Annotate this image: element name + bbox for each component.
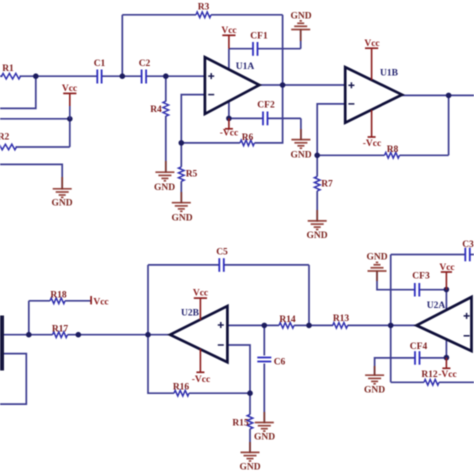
node U2A Vcc pin junction [444, 287, 450, 293]
wire Vcc junction down to R2 [69, 119, 71, 147]
svg-text:U1B: U1B [380, 69, 399, 79]
wire R16 to minus loop [189, 392, 250, 394]
svg-text:Vcc: Vcc [364, 39, 379, 49]
wire R18 to Vcc bar [65, 300, 91, 302]
op-amp input polarity marks [208, 73, 469, 345]
svg-text:Vcc: Vcc [93, 298, 108, 308]
svg-text:R15: R15 [232, 419, 249, 429]
ground stub input rail [61, 177, 63, 190]
ground stub CF3 (up) [376, 271, 378, 282]
node U2A -Vcc pin junction [444, 355, 450, 361]
wire C5 line left [148, 264, 219, 266]
op-amp U2A [417, 297, 472, 351]
U2A plus pin mark [464, 315, 470, 317]
wire U2B plus input [227, 324, 279, 326]
ground stub CF2 [300, 129, 302, 140]
resistor R18 [50, 298, 65, 304]
wire CF4 GND stub [375, 358, 415, 375]
wire U1B output [402, 94, 474, 96]
wire R18 line [29, 300, 50, 302]
ground stub R4 [165, 161, 167, 173]
svg-text:CF2: CF2 [257, 101, 275, 111]
svg-text:GND: GND [254, 433, 275, 443]
wire CF3 GND stub [377, 271, 415, 290]
wire CF1 rail Vcc to cap [229, 48, 253, 50]
wire R6 to feedback vertical [255, 85, 283, 143]
svg-text:-Vcc: -Vcc [220, 129, 238, 139]
U1B plus pin mark [348, 84, 354, 86]
wire U2B output vertical to R16 [148, 335, 174, 394]
wire U2A output bus vertical [390, 255, 392, 383]
wire C3 line [391, 254, 466, 256]
ground stub R7 [316, 210, 318, 222]
wire R17 to U2B output [68, 334, 171, 336]
wire U1B output vertical to R8 [448, 95, 450, 155]
node U1A minus feedback junction [179, 140, 185, 146]
wire R13 line [309, 324, 333, 326]
capacitor CF3 [414, 283, 416, 297]
wire U1A bottom pin [228, 101, 230, 119]
wire feedback vertical R3 to U1A output [282, 15, 284, 85]
node U1B minus feedback junction [314, 153, 320, 159]
wire R5 top [180, 143, 182, 167]
svg-text:R2: R2 [0, 133, 10, 143]
node U1B output junction [446, 93, 452, 99]
svg-text:R16: R16 [173, 383, 190, 393]
svg-text:GND: GND [154, 183, 175, 193]
wire C1 to C2 [102, 75, 142, 77]
power symbols [63, 35, 452, 372]
svg-text:R4: R4 [150, 105, 162, 115]
wires stage 1 [0, 15, 474, 221]
node U1A plus junction [163, 73, 169, 79]
U2B plus pin mark [218, 324, 224, 326]
wire U2A top pin [445, 290, 447, 311]
wire C6 vertical top [263, 325, 265, 355]
svg-text:GND: GND [364, 386, 385, 396]
capacitor C2 [141, 70, 143, 84]
node U1A -Vcc pin junction [226, 116, 232, 122]
node U2B output junction [145, 332, 151, 338]
wire CF2 cap to GND stub [268, 117, 301, 119]
resistor R4 [163, 101, 169, 116]
ground stub C6 [263, 412, 265, 423]
resistor R16 [174, 390, 189, 396]
svg-text:C2: C2 [139, 59, 151, 69]
wire U1A output to U1B plus input [259, 84, 345, 86]
wire C6 vertical bottom to GND [263, 364, 265, 423]
wire R7 top [316, 155, 318, 176]
wire R14 to C5 junction [294, 324, 309, 326]
wire R2 to Vcc junction [16, 146, 70, 148]
ground below R7 [308, 221, 327, 230]
ground symbol stubs (maroon near symbol) [62, 29, 377, 453]
capacitor CF4 [414, 351, 416, 365]
svg-text:GND: GND [366, 253, 387, 263]
wire R1 to C1 [20, 75, 98, 77]
svg-text:R8: R8 [387, 145, 399, 155]
power Vcc above U2A [441, 272, 452, 290]
node Vcc rail junction [67, 116, 73, 122]
resistor R14 [279, 323, 294, 329]
svg-text:R5: R5 [186, 170, 198, 180]
resistor R8 [385, 153, 400, 159]
capacitors [97, 42, 470, 365]
U1A minus pin mark [208, 94, 214, 96]
svg-text:Vcc: Vcc [193, 289, 208, 299]
power Vcc above U1B [365, 48, 378, 80]
capacitor CF1 [252, 42, 254, 56]
wire R18 branch vertical [28, 301, 30, 335]
wire Vcc rail left [0, 118, 70, 120]
power -Vcc below U1A [225, 118, 233, 128]
resistor R7 [314, 177, 320, 191]
ground below CF2 [291, 140, 310, 149]
op-amps [170, 57, 471, 362]
wire R1 lead left [0, 75, 3, 77]
svg-text:R7: R7 [321, 180, 333, 190]
wire R12 line [391, 381, 424, 383]
ground stub CF4 [374, 366, 376, 376]
svg-text:GND: GND [171, 214, 192, 224]
op-amp U1B [345, 67, 402, 123]
svg-text:-Vcc: -Vcc [363, 139, 381, 149]
power Vcc above U1A [222, 35, 235, 48]
U2A minus pin mark [464, 335, 470, 337]
wire R15 bottom to GND [249, 429, 251, 453]
U1B minus pin mark [348, 103, 354, 105]
resistor R1 [2, 73, 21, 79]
wire mic output to R17 [4, 334, 53, 336]
svg-text:Vcc: Vcc [439, 263, 454, 273]
wire R8 to output vertical [400, 154, 449, 156]
wire C5 right vertical [308, 265, 310, 326]
svg-text:U1A: U1A [236, 62, 255, 72]
wire R4 bottom to GND [165, 116, 167, 172]
wire CF3 cap to Vcc pin [419, 289, 446, 291]
svg-text:R17: R17 [52, 325, 69, 335]
ground above CF3 (inverted) [368, 262, 387, 271]
wire CF1 cap to GND stub [258, 48, 301, 50]
wire ground rail left [0, 164, 62, 188]
node U1A output junction [280, 82, 286, 88]
ground stub CF1 (up) [300, 29, 302, 41]
wire U2A bottom pin [445, 339, 447, 358]
ground stub R15 [249, 442, 251, 453]
resistor R15 [247, 415, 253, 429]
ground below input rail [53, 189, 72, 198]
capacitor CF2 [262, 112, 264, 126]
power Vcc above U2B [194, 298, 207, 320]
resistor R13 [333, 323, 348, 329]
wire CF2 rail -Vcc to cap [229, 117, 263, 119]
node R1 junction [33, 73, 39, 79]
wire C2 to U1A plus input [146, 75, 205, 77]
wire U2B minus input loop [227, 345, 250, 393]
svg-text:C1: C1 [94, 59, 106, 69]
svg-text:GND: GND [290, 151, 311, 161]
wire node A vertical below R1 junction [0, 76, 36, 108]
svg-text:R1: R1 [2, 64, 14, 74]
wire C1-C2 node up to R3 line [121, 15, 123, 76]
power Vcc above R2 rail [63, 93, 76, 118]
wire R15 top [249, 393, 251, 414]
ground symbols [53, 21, 387, 461]
resistor R17 [53, 332, 68, 338]
wire U1A plus junction down to R4 [165, 76, 167, 101]
power Vcc right of R18 [90, 296, 92, 304]
resistor R3 [196, 12, 211, 18]
ground below R5 [172, 203, 191, 212]
svg-text:U2A: U2A [427, 301, 446, 311]
wire C5 left vertical [147, 265, 149, 335]
wire CF4 cap to -Vcc pin [420, 357, 447, 359]
resistor R2 [0, 144, 17, 150]
svg-text:GND: GND [239, 463, 260, 473]
U1A plus pin mark [208, 75, 214, 77]
power -Vcc below U2B [196, 349, 204, 373]
resistor R6 [240, 140, 254, 146]
svg-text:C3: C3 [462, 240, 474, 250]
node U2A output junction [388, 323, 394, 329]
svg-text:CF4: CF4 [410, 342, 428, 352]
wire R5 bottom to GND [180, 181, 182, 202]
microphone element (cut at left edge) [0, 316, 4, 371]
svg-text:-Vcc: -Vcc [438, 370, 456, 380]
wire R3 line top [122, 14, 196, 16]
svg-text:C6: C6 [274, 358, 286, 368]
svg-text:U2B: U2B [181, 309, 200, 319]
capacitor C3 [464, 248, 466, 262]
wire R12 lead right [439, 381, 474, 383]
ground below R15 [241, 452, 260, 461]
wires stage 2 [0, 255, 474, 453]
wire R6 feedback line [181, 142, 240, 144]
svg-text:Vcc: Vcc [62, 84, 77, 94]
svg-text:R14: R14 [279, 315, 296, 325]
node C1-C2 junction [120, 73, 126, 79]
svg-text:-Vcc: -Vcc [192, 375, 210, 385]
op-amp U2B [170, 306, 227, 362]
wire mic lower terminal loop [0, 354, 26, 405]
wire R7 bottom to GND [316, 191, 318, 221]
node R14-R13 junction [306, 323, 312, 329]
wire R3 to feedback vertical [211, 14, 283, 16]
ground below CF4 [365, 375, 384, 384]
svg-text:GND: GND [306, 231, 327, 241]
node U2B plus C6 junction [262, 323, 268, 329]
power -Vcc below U2A [442, 358, 450, 369]
capacitor C6 [257, 357, 271, 359]
svg-text:GND: GND [51, 199, 72, 209]
wire U1A top pin [228, 49, 230, 70]
ground stub R5 [180, 192, 182, 204]
svg-text:R13: R13 [333, 314, 350, 324]
svg-text:CF3: CF3 [412, 272, 430, 282]
svg-text:R18: R18 [50, 291, 67, 301]
node R17 output junction [76, 332, 82, 338]
wire C5 line right [224, 264, 309, 266]
ground below R4 [155, 172, 174, 181]
wire C3 lead right [470, 254, 474, 256]
wire CF2 GND stub down [300, 118, 302, 139]
capacitor C1 [96, 70, 98, 84]
svg-text:R3: R3 [198, 3, 210, 13]
op-amp U1A [205, 57, 259, 114]
svg-text:R12: R12 [421, 370, 438, 380]
node R17-R18 junction [26, 332, 32, 338]
wire R8 line left [317, 154, 384, 156]
resistor R5 [179, 167, 185, 181]
wire U1A minus input [181, 95, 205, 143]
wire CF1 GND stub up [300, 30, 302, 49]
svg-text:GND: GND [290, 12, 311, 22]
svg-text:R6: R6 [242, 133, 254, 143]
resistor R12 [424, 380, 439, 386]
wire U1B minus input [317, 104, 345, 155]
wire R13 to U2A output [348, 324, 417, 326]
svg-text:CF1: CF1 [250, 32, 268, 42]
U2B minus pin mark [218, 344, 224, 346]
node U2B minus feedback junction [247, 390, 253, 396]
svg-text:C5: C5 [216, 248, 228, 258]
power -Vcc below U1B [368, 110, 376, 137]
svg-text:Vcc: Vcc [221, 26, 236, 36]
ground above CF1 (inverted) [291, 21, 310, 30]
ground below C6 [255, 423, 274, 432]
capacitor C5 [218, 258, 220, 272]
